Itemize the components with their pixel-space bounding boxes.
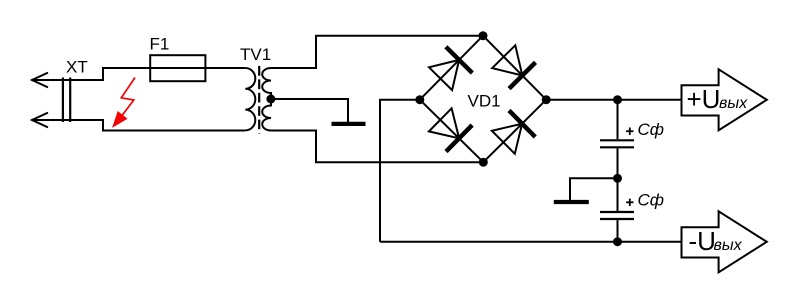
output arrow +Uвых <box>682 69 767 130</box>
diode VD1.2 (top-right) <box>492 45 535 88</box>
svg-text:VD1: VD1 <box>468 92 501 111</box>
svg-text:Сф: Сф <box>638 190 664 209</box>
junction: mid node <box>613 174 622 183</box>
capacitor C1 (Сф) <box>600 140 634 147</box>
diode VD1.3 (bottom-left) <box>429 108 472 151</box>
wire: secondary top to bridge top node <box>271 36 483 68</box>
diode VD1.4 (bottom-right) <box>492 111 535 154</box>
ground (center tap) <box>332 122 366 126</box>
svg-text:XT: XT <box>66 58 88 77</box>
wire: secondary bottom to bridge bottom node <box>271 131 483 163</box>
diode VD1.1 (top-left) <box>429 47 472 90</box>
svg-text:+U: +U <box>687 84 721 114</box>
output arrow -Uвых <box>682 211 767 272</box>
wire: C1 to mid node <box>617 148 619 178</box>
ground (output common) <box>554 200 589 204</box>
polarity + of C1 <box>626 128 633 135</box>
transformer TV1 primary winding <box>245 68 255 130</box>
transformer core <box>258 66 260 134</box>
connector XT <box>32 73 70 128</box>
wire: center tap to ground <box>271 99 348 122</box>
svg-text:вых: вых <box>714 237 743 254</box>
capacitor C2 (Сф) <box>600 212 634 219</box>
wire: C2 to negative rail <box>617 220 619 242</box>
wire: right node to +U output <box>546 99 682 101</box>
wire: negative rail <box>380 241 682 243</box>
junction: bridge right node <box>542 95 551 104</box>
svg-text:TV1: TV1 <box>240 45 271 64</box>
wire: mid node to ground <box>570 178 618 200</box>
svg-text:вых: вых <box>719 95 748 112</box>
wire: +rail to C1 <box>617 100 619 140</box>
surge arrow (red lightning) <box>114 78 135 127</box>
wire top: XT to fuse to transformer primary <box>32 68 245 80</box>
junction: negative rail / C2 <box>613 237 622 246</box>
junction: bridge top node <box>479 31 488 40</box>
fuse F1 <box>150 55 205 81</box>
svg-text:-U: -U <box>689 226 716 256</box>
wire bottom: XT to transformer primary <box>32 120 245 131</box>
junction: bridge left node <box>415 95 424 104</box>
junction: positive rail / C1 <box>613 95 622 104</box>
wire: bridge diamond edges <box>420 36 546 163</box>
wire: mid node to C2 <box>617 178 619 211</box>
transformer TV1 secondary winding <box>262 68 271 131</box>
polarity + of C2 <box>626 199 633 206</box>
junction: secondary center tap <box>266 95 275 104</box>
junction: bridge bottom node <box>479 158 488 167</box>
svg-text:F1: F1 <box>150 35 170 54</box>
svg-text:Сф: Сф <box>638 120 664 139</box>
wire: left node to negative rail <box>380 100 420 242</box>
